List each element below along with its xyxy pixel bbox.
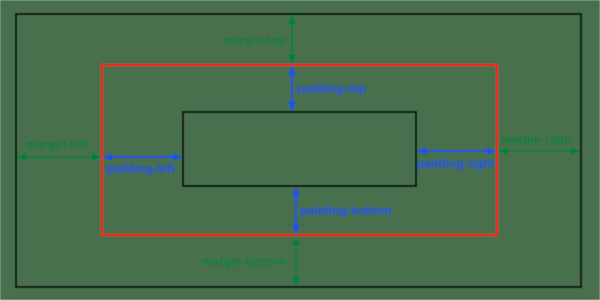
svg-text:padding-right: padding-right bbox=[417, 157, 494, 171]
margin-left arrow bbox=[17, 156, 101, 158]
svg-text:margin-top: margin-top bbox=[223, 34, 286, 48]
margin-bottom arrow bbox=[295, 236, 297, 286]
margin-top arrow bbox=[291, 16, 293, 64]
padding-bottom arrow bbox=[295, 187, 297, 234]
svg-text:padding-top: padding-top bbox=[297, 81, 366, 95]
red border (padding edge) bbox=[102, 65, 497, 235]
margin-right arrow bbox=[498, 150, 580, 152]
svg-text:margin-right: margin-right bbox=[501, 133, 572, 147]
svg-text:margin-bottom: margin-bottom bbox=[201, 255, 286, 269]
inner border (content box) bbox=[183, 112, 416, 186]
svg-text:margin-left: margin-left bbox=[26, 137, 88, 151]
padding-right arrow bbox=[417, 150, 496, 152]
svg-text:padding-bottom: padding-bottom bbox=[300, 203, 391, 217]
padding-top arrow bbox=[291, 66, 293, 111]
padding-left arrow bbox=[103, 156, 182, 158]
svg-text:padding-left: padding-left bbox=[106, 162, 175, 176]
